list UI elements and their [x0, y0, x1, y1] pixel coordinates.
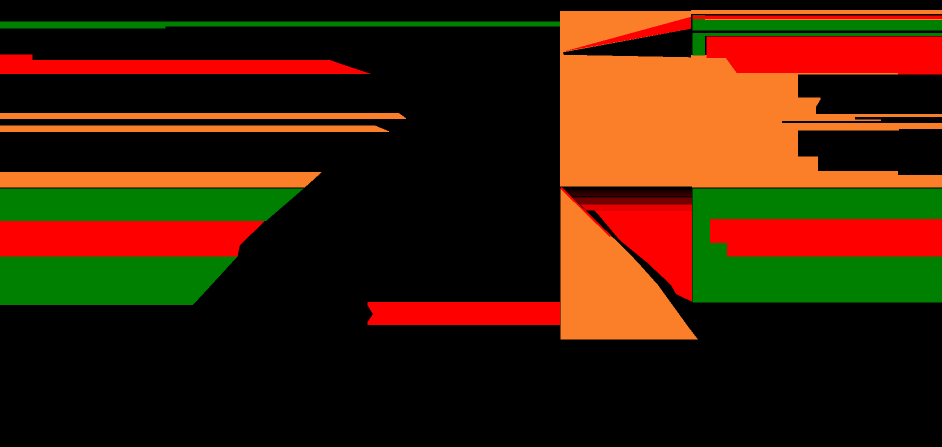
link black wedge inside block [563, 29, 691, 58]
link red stripe in green block [710, 219, 942, 257]
red region under block right [572, 189, 692, 302]
orange column step 2 [798, 156, 818, 171]
black gap over green bar [692, 30, 942, 33]
link orange hairline under red band [797, 73, 898, 75]
node orange big block [560, 11, 691, 186]
link orange thin band right 1 [798, 114, 942, 117]
black wedge tip over red bottom-middle ribbon [368, 306, 374, 323]
node green block bottom right [692, 189, 942, 303]
link orange triangle flow down [560, 188, 698, 339]
link orange thin ribbon B [0, 126, 389, 133]
link red bottom-middle ribbon [368, 302, 561, 325]
link orange hairline output [705, 19, 942, 20]
link red thin output [692, 15, 942, 19]
orange column right of node [691, 55, 798, 187]
link green band F [0, 257, 238, 306]
red diagonal line on triangle edge [561, 188, 611, 237]
link orange thin band right 1b [798, 117, 855, 121]
node green bar upper [692, 15, 705, 56]
link green thin output [692, 33, 942, 36]
orange column step wedge [798, 97, 821, 114]
link green band D [0, 188, 304, 221]
link orange band right 3 [798, 171, 942, 187]
black gap wedge right of orange triangle [560, 189, 707, 341]
link red band E [0, 221, 265, 257]
link orange thin ribbon A [0, 113, 406, 119]
link orange band right 2 [798, 123, 942, 131]
black line over column [782, 121, 855, 123]
link green output band [692, 20, 942, 30]
link red wedge inside block [563, 17, 691, 52]
link orange hairline right [855, 119, 881, 120]
link red upper-left ribbon [0, 55, 371, 74]
link green top-left ribbon [0, 22, 560, 29]
link orange band C [0, 172, 322, 187]
link orange thin output top [691, 10, 942, 14]
link red big output band [706, 36, 942, 74]
strata bands under block [562, 187, 693, 190]
